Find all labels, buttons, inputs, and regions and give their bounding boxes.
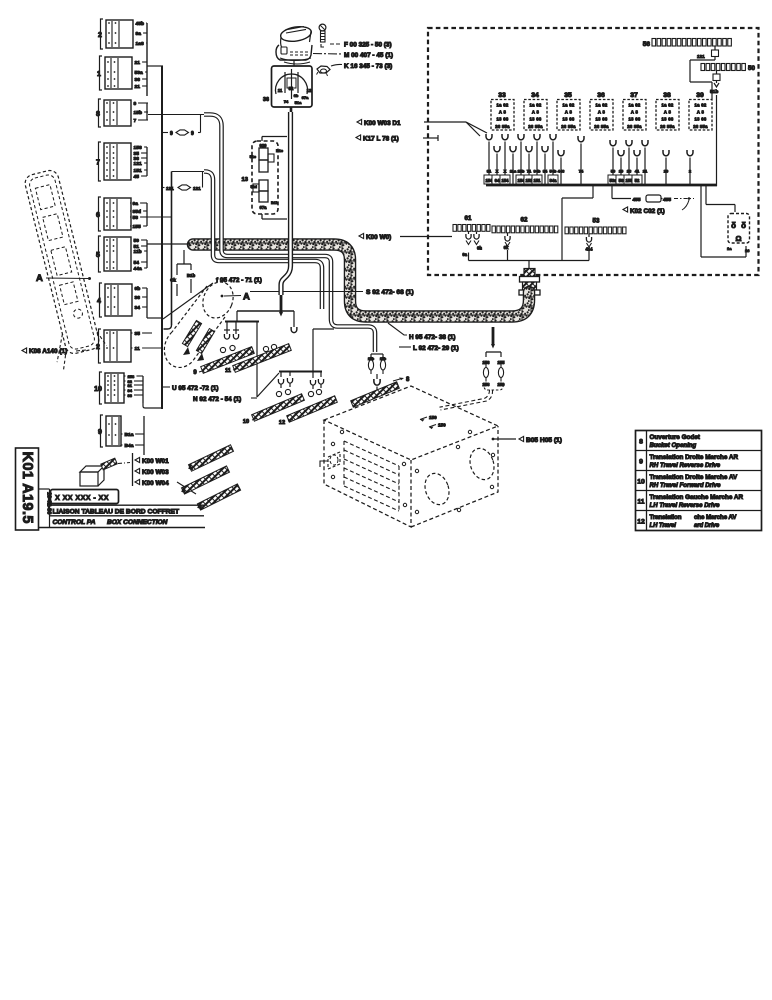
table row 10 (637, 474, 738, 489)
wire (124, 380, 126, 382)
wire (131, 61, 134, 63)
wire (131, 85, 134, 87)
bracket 1 (224, 322, 279, 398)
label K00 W03 (135, 468, 140, 473)
wire (131, 78, 134, 80)
wire (131, 287, 134, 289)
svg-text:36: 36 (135, 295, 141, 301)
svg-text:X: X (496, 169, 499, 174)
svg-text:19: 19 (619, 169, 624, 174)
svg-text:020: 020 (260, 143, 268, 148)
terminal wire (616, 150, 626, 185)
svg-text:H 95 472- 38 (1): H 95 472- 38 (1) (409, 334, 456, 341)
control box B05 (dashed isometric) (324, 386, 498, 527)
harness drop wire to B05 box (491, 327, 495, 349)
svg-text:150: 150 (438, 423, 446, 428)
svg-text:84b: 84b (534, 169, 541, 174)
svg-text:50: 50 (134, 238, 140, 244)
svg-text:A 8: A 8 (532, 110, 540, 115)
wire (124, 384, 126, 386)
terminal hardware (276, 389, 321, 396)
svg-text:39: 39 (696, 92, 704, 99)
svg-text:0a: 0a (133, 201, 139, 207)
label K00 W03 D1 with leader (357, 119, 362, 124)
svg-text:26 85a: 26 85a (594, 124, 609, 129)
svg-text:21: 21 (135, 84, 141, 90)
connector 8 (96, 99, 131, 127)
svg-text:11: 11 (278, 88, 283, 93)
nut (317, 66, 331, 76)
svg-text:B1b: B1b (187, 273, 196, 278)
svg-text:13 66: 13 66 (629, 117, 641, 122)
svg-text:74: 74 (284, 99, 289, 104)
svg-text:26 85a: 26 85a (660, 124, 675, 129)
fuse 121 loop (163, 172, 204, 188)
table row 11 (637, 494, 743, 509)
wire (130, 175, 133, 177)
fuse block 37 (623, 92, 646, 130)
connector 2 (top) (98, 19, 133, 49)
harness bulkhead connector (519, 269, 540, 301)
conn 5 bracket + feed to harness (147, 240, 190, 268)
fuse block 34 (524, 92, 547, 130)
svg-text:9a: 9a (136, 31, 142, 37)
cable band tag 12 (287, 396, 338, 422)
svg-text:33: 33 (498, 92, 506, 99)
svg-text:1a 02: 1a 02 (662, 103, 674, 108)
table row 12 (637, 514, 737, 529)
svg-text:455: 455 (663, 197, 671, 203)
plug (101, 458, 117, 470)
fuse block 35 (557, 92, 580, 130)
main vertical bus (161, 66, 163, 409)
bolt (319, 24, 326, 47)
svg-text:21: 21 (135, 60, 141, 66)
round holes (421, 445, 498, 508)
dashed cable into box (440, 390, 493, 410)
svg-text:K 16 345 - 73 (3): K 16 345 - 73 (3) (344, 63, 392, 70)
terminal wire (624, 140, 634, 185)
svg-text:45: 45 (134, 174, 140, 180)
svg-text:Translation Gauche Marche A: Translation Gauche Marche AR (650, 494, 744, 501)
svg-text:9: 9 (134, 101, 137, 107)
svg-text:56: 56 (619, 178, 624, 183)
svg-text:B05 H05 (1): B05 H05 (1) (526, 437, 562, 444)
svg-text:Ck: Ck (170, 278, 176, 283)
wire (124, 375, 126, 377)
upper bracket (237, 311, 297, 333)
svg-text:Bucket Opening: Bucket Opening (650, 442, 697, 449)
wire (132, 32, 135, 34)
svg-text:A 8: A 8 (631, 110, 639, 115)
terminal wire (642, 140, 648, 185)
wire (130, 162, 133, 164)
svg-text:34: 34 (531, 92, 539, 99)
svg-text:74: 74 (579, 169, 584, 174)
svg-text:58: 58 (133, 215, 139, 221)
svg-text:36: 36 (135, 77, 141, 83)
wire 51b from strip 50 (713, 71, 720, 88)
label K17 L78 (1) with leader (356, 135, 361, 140)
conn 7 bracket (146, 147, 148, 176)
cable band tag 10 (252, 394, 305, 421)
svg-text:6b: 6b (294, 93, 299, 98)
terminal wire 2 (687, 150, 693, 185)
wire (130, 267, 133, 269)
svg-text:53: 53 (593, 218, 600, 225)
connector 10 (94, 372, 124, 404)
dash-dot leader (118, 463, 130, 464)
svg-text:13 66: 13 66 (563, 117, 575, 122)
svg-text:δ: δ (741, 221, 746, 230)
svg-text:13 66: 13 66 (497, 117, 509, 122)
conn 10 bracket (143, 376, 161, 408)
connector 9 (98, 415, 121, 447)
svg-text:84a: 84a (550, 178, 558, 183)
cable stubs (189, 445, 234, 471)
svg-text:δ: δ (731, 221, 736, 230)
wire (130, 157, 133, 159)
svg-text:34: 34 (135, 305, 141, 311)
connector 36 (272, 61, 313, 107)
strip 61 terminals 0a 0h (466, 232, 479, 261)
svg-text:LIAISON TABLEAU DE BORD CO: LIAISON TABLEAU DE BORD COFFRET (53, 509, 180, 516)
svg-text:150: 150 (429, 415, 437, 420)
wire channel from fuse 9 (204, 115, 375, 353)
label K00 W04 (135, 479, 140, 484)
label K 16 345-73 (3) (331, 64, 342, 66)
svg-text:121: 121 (134, 161, 142, 167)
svg-text:ard Drive: ard Drive (694, 523, 720, 529)
wire (129, 202, 132, 204)
svg-text:BOX CONNECTION: BOX CONNECTION (107, 519, 168, 526)
svg-text:K00 W03 D1: K00 W03 D1 (364, 120, 401, 127)
label M 00 407-45 (1) (313, 53, 342, 56)
svg-text:53a: 53a (135, 70, 143, 76)
svg-text:RH Travel Forward Drive: RH Travel Forward Drive (650, 482, 722, 489)
svg-text:50: 50 (611, 169, 616, 174)
wire (130, 146, 133, 148)
terminal wire (492, 146, 502, 185)
fuse block 39 (689, 92, 712, 130)
terminal wire (484, 134, 494, 185)
svg-text:26 85a: 26 85a (495, 124, 510, 129)
relay upper (259, 148, 274, 172)
connector 6 (96, 197, 131, 231)
svg-text:16: 16 (745, 248, 750, 253)
svg-text:52: 52 (635, 178, 640, 183)
svg-text:8: 8 (639, 439, 643, 446)
svg-text:X XX XXX - XX: X XX XXX - XX (55, 493, 109, 502)
connector 5 (96, 236, 131, 272)
svg-text:61: 61 (465, 215, 472, 222)
svg-text:1a 02: 1a 02 (563, 103, 575, 108)
terminal (374, 374, 380, 390)
fuse pair on drop 8 (371, 354, 383, 357)
svg-text:1a 02: 1a 02 (695, 103, 707, 108)
svg-text:41: 41 (635, 169, 640, 174)
conn 9 bracket (143, 416, 145, 455)
svg-text:N 92 472 - 54 (1): N 92 472 - 54 (1) (193, 396, 241, 403)
wire (121, 444, 123, 446)
terminal wire (532, 134, 542, 185)
wire (131, 332, 133, 334)
secondary bus (164, 172, 172, 330)
svg-text:13 66: 13 66 (695, 117, 707, 122)
connector 4 (97, 283, 132, 317)
conn 6 bracket (147, 203, 172, 226)
svg-text:K01 A19.5: K01 A19.5 (19, 452, 35, 524)
terminal wire 20 (663, 150, 669, 185)
svg-text:Translation: Translation (650, 514, 682, 521)
svg-text:11b: 11b (134, 249, 142, 255)
svg-text:31: 31 (487, 169, 492, 174)
svg-text:446: 446 (558, 169, 565, 174)
wire from strip 56 pin with tag 121 (690, 46, 719, 99)
svg-text:B1c: B1c (276, 149, 283, 153)
svg-text:12: 12 (279, 420, 285, 426)
svg-text:K02 C02 (1): K02 C02 (1) (630, 208, 665, 215)
connector strip 61 (453, 215, 490, 231)
terminal wire (500, 134, 510, 185)
connector 1 (97, 56, 132, 90)
wire (129, 216, 132, 218)
wire (130, 152, 133, 154)
label B05 H05(1) (492, 438, 495, 441)
strip 53 terminal 414 (586, 234, 591, 261)
svg-text:A 8: A 8 (664, 110, 672, 115)
svg-text:U 95 472 -72 (1): U 95 472 -72 (1) (172, 385, 219, 392)
svg-text:26 85a: 26 85a (528, 124, 543, 129)
svg-text:che Marche AV: che Marche AV (694, 514, 737, 521)
label S 92 472-68 (1) (250, 291, 363, 293)
terminal wire (548, 134, 558, 185)
grille (344, 441, 399, 511)
wire from connector 36 (290, 107, 293, 112)
svg-text:10: 10 (243, 419, 249, 425)
cable tag 150 arrows (420, 417, 436, 429)
terminal hardware (220, 344, 276, 352)
fuse pair 156/155 (486, 352, 501, 357)
svg-text:50: 50 (748, 65, 755, 72)
label A (221, 295, 224, 298)
svg-text:35: 35 (564, 92, 572, 99)
svg-text:13: 13 (242, 177, 249, 183)
svg-text:51c: 51c (250, 155, 256, 159)
svg-text:A: A (243, 292, 250, 303)
fuse link 455 / label K02 C02(1) (612, 185, 694, 210)
svg-text:56: 56 (643, 41, 651, 48)
svg-text:Translation Droite Marche A: Translation Droite Marche AV (650, 474, 739, 481)
part number box (51, 490, 119, 504)
svg-text:15b: 15b (134, 110, 142, 116)
relay lower (253, 180, 268, 202)
connector strip 62 (492, 217, 558, 233)
svg-text:33: 33 (128, 393, 133, 398)
svg-text:A 8: A 8 (499, 110, 507, 115)
svg-text:07a: 07a (260, 205, 268, 210)
bolt holes (331, 430, 494, 513)
svg-text:f 95 472 - 71 (1): f 95 472 - 71 (1) (216, 277, 262, 284)
svg-text:37: 37 (630, 92, 638, 99)
svg-text:1a 02: 1a 02 (629, 103, 641, 108)
wire to diode block (701, 185, 746, 257)
svg-text:Ω: Ω (735, 234, 741, 243)
svg-text:455: 455 (633, 197, 641, 203)
svg-text:15b: 15b (518, 169, 525, 174)
wire (130, 245, 133, 247)
svg-text:12: 12 (307, 88, 312, 93)
terminal wire (558, 150, 565, 185)
fuse block 33 (491, 92, 514, 130)
diode block (dashed) (728, 214, 750, 244)
svg-text:1a 02: 1a 02 (530, 103, 542, 108)
svg-text:158: 158 (134, 145, 142, 151)
svg-text:414: 414 (586, 247, 594, 252)
svg-text:X: X (504, 169, 507, 174)
svg-text:121: 121 (166, 186, 174, 191)
label K00 W01 (135, 457, 140, 462)
svg-text:B4a: B4a (125, 443, 134, 449)
wire (131, 71, 134, 73)
svg-text:26 85a: 26 85a (561, 124, 576, 129)
wire (716, 95, 718, 186)
wire (131, 306, 134, 308)
svg-text:9: 9 (170, 131, 173, 137)
svg-text:38: 38 (663, 92, 671, 99)
svg-text:84: 84 (543, 169, 548, 174)
svg-text:A 8: A 8 (565, 110, 573, 115)
svg-text:121: 121 (697, 54, 705, 59)
svg-text:151: 151 (534, 178, 542, 183)
terminal wire (510, 146, 517, 185)
svg-text:K17 L 78 (1): K17 L 78 (1) (363, 136, 399, 143)
svg-text:10: 10 (637, 479, 645, 486)
svg-text:04: 04 (495, 178, 500, 183)
svg-text:K08 A140 (1): K08 A140 (1) (29, 348, 67, 355)
label H 95 472-38(1) (388, 323, 407, 335)
wire channel from fuse 121 (204, 172, 322, 310)
svg-text:54: 54 (134, 260, 140, 266)
svg-text:1a8: 1a8 (136, 41, 144, 47)
svg-text:K00 W04: K00 W04 (142, 480, 169, 487)
svg-text:07a: 07a (302, 95, 309, 100)
connector 7 (96, 142, 131, 181)
terminal wire (608, 140, 618, 185)
wire (130, 102, 133, 104)
svg-text:26 85a: 26 85a (627, 124, 642, 129)
label F 00 325-50(3) (330, 43, 342, 45)
main wiring harness (thick hatched cable) (193, 245, 529, 317)
conn 4 bracket (147, 288, 162, 318)
svg-text:RH Travel Reverse Drive: RH Travel Reverse Drive (650, 462, 721, 469)
terminal wire 74 (578, 136, 584, 185)
conn 8 bracket (146, 103, 148, 120)
label U 95 472-72(1) (163, 386, 170, 388)
collector wire to harness connector (469, 261, 590, 269)
bracket 2 (278, 329, 334, 389)
fuse 9 loop (148, 115, 204, 133)
fuse block 36 (590, 92, 613, 130)
svg-text:11a: 11a (510, 169, 517, 174)
svg-text:0a: 0a (462, 252, 467, 257)
wire from bus to strip row (562, 185, 593, 261)
label L 92 472-29(1) (399, 346, 411, 348)
svg-text:1a 02: 1a 02 (596, 103, 608, 108)
svg-text:LH Travel: LH Travel (650, 523, 677, 529)
svg-text:0k: 0k (504, 245, 509, 250)
wire (130, 250, 133, 252)
svg-text:51: 51 (289, 86, 294, 91)
svg-text:36: 36 (263, 97, 269, 103)
console panel (dashed, hidden) (12, 167, 110, 372)
svg-text:F 00 325 - 50 (3): F 00 325 - 50 (3) (344, 42, 392, 49)
panel bus line (486, 184, 717, 187)
svg-text:K00 W03: K00 W03 (142, 469, 169, 476)
svg-text:21: 21 (643, 169, 648, 174)
svg-text:1a: 1a (727, 246, 732, 251)
svg-text:13 66: 13 66 (596, 117, 608, 122)
svg-text:K00 W01: K00 W01 (142, 458, 169, 465)
fuse block 38 (656, 92, 679, 130)
svg-text:121: 121 (193, 186, 201, 191)
terminal wire (542, 146, 548, 185)
function table (636, 431, 762, 531)
svg-text:Translation Droite Marche A: Translation Droite Marche AR (650, 454, 739, 461)
svg-text:36: 36 (597, 92, 605, 99)
wire (132, 42, 135, 44)
cable band tag 9 (201, 347, 255, 374)
svg-text:M 00 407 - 45 (1): M 00 407 - 45 (1) (344, 52, 393, 59)
svg-text:A 8: A 8 (598, 110, 606, 115)
svg-text:45b: 45b (136, 21, 144, 27)
svg-text:12: 12 (637, 519, 645, 526)
cables inside sleeve (182, 320, 201, 346)
svg-text:L 92 472- 29 (1): L 92 472- 29 (1) (413, 345, 459, 352)
wire (130, 261, 133, 263)
strip 62 terminal 0k (505, 233, 510, 261)
svg-text:7: 7 (134, 118, 137, 124)
svg-text:51a: 51a (295, 100, 302, 105)
wire (132, 22, 135, 24)
latch (320, 452, 340, 469)
svg-text:85d: 85d (133, 209, 141, 215)
svg-text:1a 02: 1a 02 (497, 103, 509, 108)
label K08 A140 (1) (22, 348, 27, 353)
svg-text:11: 11 (225, 368, 231, 374)
label K00 W0) with leader (359, 233, 364, 238)
wire (124, 389, 126, 391)
svg-text:11: 11 (135, 346, 140, 352)
dashed enclosure box (instrument panel coffret) (428, 28, 759, 275)
wire (130, 239, 133, 241)
svg-text:51b: 51b (710, 89, 718, 95)
svg-text:S 92 472- 68 (1): S 92 472- 68 (1) (366, 289, 414, 296)
relay block 13 (252, 137, 287, 220)
small connector 3d (80, 466, 104, 486)
svg-text:0h: 0h (477, 246, 482, 251)
terminal wire (516, 134, 526, 185)
wire (129, 225, 132, 227)
table row 8 (639, 434, 701, 449)
svg-text:CONTROL PA: CONTROL PA (53, 519, 96, 526)
svg-text:B1a: B1a (125, 432, 134, 438)
bus bracket conn 2/1 (147, 23, 163, 96)
terminal wire (524, 146, 534, 185)
wire (131, 296, 134, 298)
svg-text:16: 16 (627, 169, 632, 174)
svg-text:151: 151 (134, 168, 142, 174)
